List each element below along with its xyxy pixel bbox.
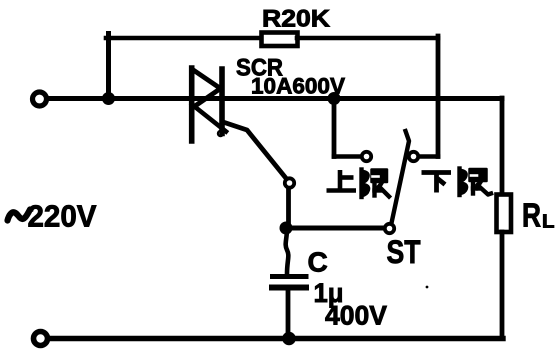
wire main horizontal y=98: [48, 96, 502, 101]
node junction C (gate/ST/capacitor): [280, 222, 293, 235]
svg-text:L: L: [542, 211, 555, 232]
speck: [426, 286, 429, 289]
wire right vertical lower x=502: [500, 232, 505, 338]
wire upper-limit stub: [334, 154, 360, 159]
wire right-top vertical x=438 down to lower-limit stub: [436, 36, 441, 157]
thyristor SCR cathode bar: [219, 69, 225, 134]
wire gate circle to ST node: [286, 189, 291, 228]
thyristor SCR triangle top edge: [194, 71, 221, 89]
label lower-limit 下限 (drawn glyphs): [422, 173, 452, 193]
thyristor SCR anode bar: [189, 68, 195, 141]
wire cap top lead: [286, 228, 289, 274]
wire lower-limit stub: [420, 154, 438, 159]
label ~220V AC tilde: [8, 210, 31, 221]
wire cap bottom lead: [286, 291, 291, 339]
capacitor C bottom plate: [272, 285, 306, 291]
thyristor SCR gate lead: [223, 122, 285, 177]
label upper-limit 上限 (drawn glyphs): [327, 170, 357, 191]
wire upper-limit vertical x=334: [332, 98, 337, 157]
thyristor SCR lower diagonal stroke: [192, 105, 226, 132]
terminal top-left: [33, 92, 47, 106]
capacitor C top plate: [273, 274, 307, 279]
wire top horizontal left of R1: [106, 36, 261, 41]
terminal bottom-left: [34, 332, 48, 346]
node junction B (upper-limit branch): [328, 92, 341, 105]
switch ST pivot (open circle): [385, 224, 394, 233]
node junction D (capacitor bottom): [282, 332, 296, 346]
svg-text:400V: 400V: [325, 301, 387, 331]
thyristor SCR triangle bottom edge: [195, 89, 221, 107]
wire ST horizontal y=228: [286, 226, 384, 231]
contact lower-limit (open circle): [409, 152, 418, 161]
svg-text:ST: ST: [387, 234, 421, 270]
gate terminal (open circle): [285, 178, 294, 187]
wire top horizontal right of R1: [297, 36, 438, 41]
svg-text:10A600V: 10A600V: [251, 74, 345, 99]
wire right vertical upper x=502: [500, 98, 505, 195]
wire left vertical x=108.5: [106, 34, 111, 99]
resistor R 20K body: [262, 33, 298, 47]
contact upper-limit (open circle): [362, 152, 371, 161]
svg-text:R: R: [522, 197, 541, 234]
switch ST arm: [392, 131, 410, 223]
wire bottom horizontal y=338: [49, 336, 503, 341]
node junction A (left vertical to main wire): [102, 92, 115, 105]
svg-text:R20K: R20K: [262, 6, 331, 33]
resistor RL body: [497, 195, 512, 233]
thyristor SCR cathode tip hook: [218, 131, 223, 136]
svg-text:C: C: [308, 247, 328, 278]
svg-text:220V: 220V: [28, 199, 97, 234]
